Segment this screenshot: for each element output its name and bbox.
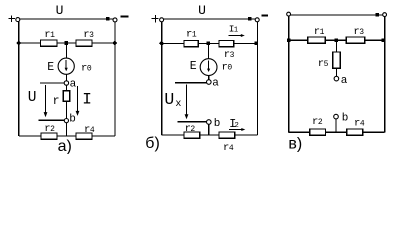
svg-text:b: b	[214, 118, 221, 130]
svg-text:r1: r1	[44, 29, 55, 41]
node b circle (v)	[334, 114, 339, 119]
resistor R1 (v)	[308, 37, 325, 43]
dot on top wire (b)	[248, 17, 251, 20]
wire tap node a (b)	[175, 82, 207, 84]
source arrow (a)	[65, 60, 67, 68]
svg-text:b: b	[69, 114, 76, 126]
arrow I1 (b)	[228, 35, 241, 37]
svg-text:r2: r2	[44, 123, 55, 135]
source E circle (b)	[200, 59, 217, 76]
svg-text:r5: r5	[318, 58, 329, 70]
wire r5 to node a (v)	[335, 68, 337, 76]
node a circle (v)	[334, 76, 339, 81]
wire resistor r to node b	[65, 101, 67, 118]
wire node b to bottom (a)	[65, 123, 67, 136]
resistor r vertical (a)	[63, 91, 69, 102]
svg-text:a: a	[212, 78, 219, 90]
node junction middle (a)	[65, 41, 69, 45]
svg-text:r4: r4	[223, 142, 234, 154]
node junction left (v)	[287, 38, 291, 42]
svg-text:r1: r1	[186, 29, 197, 41]
resistor R2 (v)	[310, 129, 326, 135]
wire right rail (v)	[384, 17, 386, 133]
resistor R2 (a)	[41, 133, 57, 139]
node junction right (v)	[381, 38, 385, 42]
wire node b to bottom (v)	[335, 119, 337, 132]
wire right rail (a)	[114, 22, 116, 136]
svg-text:r4: r4	[84, 124, 95, 136]
node a circle (a)	[64, 81, 68, 85]
resistor R1 (a)	[41, 40, 58, 46]
node junction right (a)	[112, 40, 117, 45]
wire node a to resistor r	[65, 85, 67, 90]
node a circle (b)	[207, 80, 212, 85]
wire bottom rail (v)	[289, 131, 385, 133]
node junction middle (v)	[335, 38, 339, 42]
resistor R3 (a)	[76, 40, 92, 46]
svg-text:r3: r3	[224, 49, 235, 61]
svg-text:b: b	[342, 112, 349, 124]
wire middle row (v)	[289, 39, 385, 41]
arrow U (a)	[45, 85, 47, 113]
wire left rail (a)	[18, 22, 20, 136]
wire middle row (a)	[19, 42, 115, 44]
wire junction to r5 (v)	[335, 42, 337, 52]
svg-text:a: a	[70, 78, 77, 90]
terminal left (v)	[287, 12, 291, 16]
svg-text:r3: r3	[353, 26, 364, 38]
resistor R4 (v)	[347, 129, 363, 135]
wire bottom rail (b)	[162, 134, 258, 136]
wire top (b)	[164, 18, 256, 20]
arrow Ux (b)	[186, 85, 188, 116]
resistor R5 vertical (v)	[333, 52, 341, 68]
minus sign (b)	[262, 14, 269, 16]
svg-text:а): а)	[58, 138, 72, 154]
svg-text:U: U	[56, 3, 64, 18]
svg-text:r0: r0	[81, 62, 92, 74]
svg-text:I: I	[82, 91, 92, 109]
source arrow (b)	[208, 61, 210, 69]
resistor R4 (b)	[219, 132, 235, 138]
node junction right (b)	[255, 42, 259, 46]
wire tap node b (a)	[38, 119, 64, 121]
wire source to node a	[65, 74, 67, 81]
resistor R3 (v)	[346, 37, 364, 43]
svg-text:U: U	[28, 90, 37, 106]
node b circle (b)	[207, 120, 212, 125]
svg-text:r0: r0	[222, 61, 233, 73]
svg-text:r: r	[53, 95, 60, 108]
terminal left (b)	[160, 18, 164, 22]
terminal right (a)	[113, 18, 117, 22]
svg-text:в): в)	[288, 136, 302, 153]
source E circle (a)	[58, 58, 74, 74]
svg-text:1: 1	[234, 27, 238, 35]
svg-text:a: a	[341, 75, 348, 87]
wire junction to source (b)	[207, 45, 209, 59]
wire source to node a (b)	[208, 76, 210, 80]
node junction left (a)	[16, 40, 21, 45]
terminal right (v)	[383, 13, 387, 17]
svg-text:2: 2	[234, 122, 239, 130]
terminal left (a)	[16, 18, 20, 22]
svg-text:r3: r3	[83, 29, 94, 41]
plus terminal sign (b)	[151, 15, 158, 22]
svg-text:E: E	[190, 60, 197, 73]
wire left rail (b)	[161, 22, 163, 135]
arrow I (a)	[77, 86, 79, 112]
arrow I2 (b)	[229, 129, 242, 131]
node junction left (b)	[159, 41, 164, 46]
wire node b to bottom (b)	[208, 124, 210, 135]
wire top (a)	[20, 18, 113, 20]
svg-text:б): б)	[145, 135, 160, 152]
dot on top wire (v)	[376, 13, 379, 16]
svg-text:r2: r2	[185, 123, 196, 135]
wire junction to source (a)	[65, 45, 67, 58]
wire middle row (b)	[162, 42, 258, 44]
wire right rail (b)	[256, 22, 258, 135]
wire tap node a (a)	[40, 82, 64, 84]
minus sign	[121, 16, 129, 18]
terminal right (b)	[255, 18, 259, 22]
wire bottom rail (a)	[19, 135, 115, 137]
svg-text:r2: r2	[312, 116, 323, 128]
svg-text:U: U	[164, 90, 174, 109]
svg-text:x: x	[175, 99, 181, 110]
resistor R2 (b)	[184, 132, 200, 138]
svg-text:r1: r1	[314, 26, 325, 38]
svg-text:U: U	[198, 3, 206, 18]
dot on top wire	[106, 17, 109, 20]
resistor R1 (b)	[184, 40, 198, 46]
node b circle (a)	[64, 119, 68, 123]
wire left rail (v)	[288, 16, 290, 132]
svg-text:r4: r4	[354, 118, 365, 130]
plus terminal sign	[9, 15, 16, 22]
wire top (v)	[291, 14, 383, 16]
svg-text:E: E	[47, 61, 54, 74]
resistor R3 (b)	[219, 40, 234, 46]
wire tap node b (b)	[178, 121, 207, 123]
node junction middle (b)	[207, 41, 211, 45]
resistor R4 (a)	[76, 133, 92, 139]
